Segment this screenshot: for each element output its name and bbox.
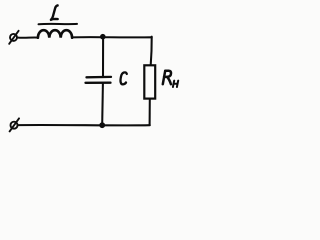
wire capacitor stem bottom bbox=[101, 84, 104, 124]
wire top-left bbox=[17, 36, 38, 38]
wire capacitor stem top bbox=[102, 37, 104, 76]
terminal top-left bbox=[9, 31, 18, 44]
label C bbox=[121, 72, 127, 84]
label L bbox=[51, 5, 58, 19]
wire resistor stem bottom bbox=[149, 99, 151, 125]
capacitor C top plate bbox=[87, 76, 112, 79]
resistor Rn body bbox=[144, 65, 155, 98]
capacitor C bottom plate bbox=[86, 82, 111, 84]
node top junction bbox=[100, 34, 106, 40]
inductor L bbox=[38, 30, 72, 38]
label subscript н bbox=[173, 81, 178, 87]
label R bbox=[163, 71, 171, 85]
node bottom junction bbox=[99, 122, 105, 128]
wire right branch down bbox=[151, 37, 152, 66]
wire bottom bbox=[18, 124, 150, 126]
wire top bbox=[72, 36, 152, 38]
terminal bottom-left bbox=[10, 118, 19, 131]
overline of L bbox=[39, 23, 78, 25]
